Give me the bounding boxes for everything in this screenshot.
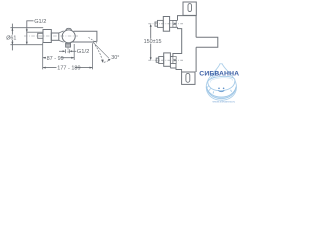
body column outline xyxy=(178,16,197,21)
nipple centerline (dashed) xyxy=(67,48,69,54)
body lower-left steps down to bottom knob xyxy=(170,64,181,72)
lower union stub xyxy=(156,58,159,62)
extension line at wall face xyxy=(42,43,44,70)
label 30° xyxy=(111,55,119,61)
bathtub feet xyxy=(213,90,232,94)
bathtub inner rim xyxy=(210,77,233,85)
label G1/2 (wall union thread, top left) xyxy=(34,19,46,25)
upper union stub xyxy=(155,22,158,26)
tilt angle arc with arrow xyxy=(104,60,110,63)
dimension 150±15 (union spacing) xyxy=(150,25,152,59)
spout tilt line (dashed, 30 degrees) xyxy=(89,37,98,43)
body waist left edge xyxy=(173,27,182,56)
svg-text:87 - 99: 87 - 99 xyxy=(47,56,64,62)
union barrel between escutcheon and valve body xyxy=(51,33,59,40)
lower valve body xyxy=(164,53,171,66)
upper inlet interface to body xyxy=(169,20,177,27)
spout (pointing away from wall) xyxy=(196,37,218,47)
face eyes xyxy=(218,88,220,90)
svg-text:G1/2: G1/2 xyxy=(34,19,46,25)
escutcheon (wall flange) xyxy=(43,30,51,43)
wall pipe stub behind escutcheon xyxy=(38,33,43,38)
upper valve body xyxy=(163,17,169,32)
drop bottom crescent (filled) xyxy=(207,87,237,99)
dimension Ø61 (escutcheon diameter) xyxy=(11,24,13,51)
lower wall union: centerline (dash-dot) xyxy=(148,59,183,61)
face smile xyxy=(218,91,224,92)
thermostat knob (side view circle) xyxy=(62,30,75,43)
upper wall union: centerline (dash-dot) xyxy=(148,23,183,25)
temperature knob (top box) xyxy=(183,2,196,15)
svg-text:30°: 30° xyxy=(111,55,119,61)
leader for G1/2 top label xyxy=(27,21,34,44)
svg-text:Ø61: Ø61 xyxy=(6,35,16,41)
extension line at knob front xyxy=(73,44,75,60)
svg-text:G1/2: G1/2 xyxy=(77,49,90,55)
callout G1/2 (hose nipple thread) xyxy=(59,50,64,52)
knob conical back (tangents from barrel to circle) xyxy=(59,31,64,42)
svg-text:177 - 189: 177 - 189 xyxy=(57,66,80,72)
grip slot of bottom knob xyxy=(186,73,190,82)
centerline of mixer body (dash-dot) xyxy=(24,35,78,37)
knob top cap xyxy=(66,28,72,30)
svg-text:150±15: 150±15 xyxy=(144,39,162,45)
dimension 177 - 189 (wall to spout end) xyxy=(43,67,93,69)
bathtub body xyxy=(208,80,236,91)
drop shine hatching xyxy=(207,71,218,91)
upper union nut xyxy=(158,20,164,27)
svg-text:СИБВАННА: СИБВАННА xyxy=(199,71,239,78)
spout (side view bar) xyxy=(71,31,97,42)
dimension 87 - 99 (wall to knob face) xyxy=(43,57,74,59)
extension line at spout end xyxy=(92,43,94,69)
water drop outline xyxy=(206,64,236,100)
flow knob (bottom box) xyxy=(182,72,195,84)
bathtub rim xyxy=(207,75,236,94)
hose nipple below knob xyxy=(66,43,71,47)
grip slot of top knob xyxy=(188,4,192,12)
lower inlet interface to body xyxy=(170,57,176,64)
lower union nut xyxy=(159,57,164,64)
svg-text:www.sibvanna.ru: www.sibvanna.ru xyxy=(213,100,236,104)
leader ray to 30 deg label xyxy=(94,44,109,59)
